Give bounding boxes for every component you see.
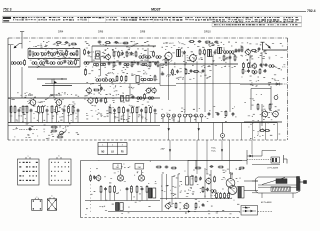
svg-text:2: 2 (112, 145, 113, 147)
wire dash y129 (21, 129, 38, 131)
resistor R12 (149, 61, 151, 67)
wire drop w6 (229, 140, 231, 174)
module label DR4 (58, 29, 64, 33)
capacitor C7 (108, 62, 111, 66)
connector box B0 (271, 157, 280, 163)
wire lower bus A (28, 66, 80, 68)
row below border (156, 165, 245, 172)
wire drops right (242, 123, 278, 140)
lower box bottom dashed (81, 217, 241, 219)
coil L5 (59, 53, 64, 56)
resistor R76 (214, 176, 216, 183)
wire dash bottom (258, 211, 273, 213)
capacitor C22 (202, 69, 205, 73)
transistor TS18 (205, 177, 211, 184)
transistor TS9 (29, 99, 36, 107)
wire rb2 (244, 121, 282, 123)
arrowheads below bus (168, 128, 200, 131)
svg-text:MD3T: MD3T (151, 8, 162, 12)
resistor R4 (75, 59, 77, 65)
svg-text:752.4: 752.4 (307, 9, 316, 13)
resistor R15 (165, 57, 167, 63)
coil L18 (223, 51, 228, 54)
coil L29 (84, 62, 89, 65)
coil diagram K2 (dot grid) (49, 156, 71, 186)
resistor R75 (195, 176, 197, 183)
arrow a2 (221, 149, 223, 152)
label 10f (84, 96, 87, 98)
page number 752 3 (top left) (3, 7, 12, 11)
transformer TR2 (177, 49, 181, 57)
coil L24 (141, 78, 146, 81)
label box DR1b (135, 164, 144, 170)
transistor TS22 (183, 203, 189, 210)
svg-text:DR4: DR4 (58, 29, 64, 33)
capacitor C34 (217, 112, 220, 116)
wire drop w5 (206, 140, 208, 174)
svg-text:1 m: 1 m (282, 67, 286, 69)
resistor R82 (195, 202, 197, 209)
coil L28 (211, 190, 216, 193)
wire rb (261, 104, 263, 126)
coil diagram K3 (corner pads) (32, 196, 42, 210)
resistor comb left (R31-R45) (10, 105, 79, 122)
coil L23 (109, 79, 114, 82)
wire trunk v4 (147, 48, 149, 62)
coil L26 (137, 97, 142, 100)
svg-text:2M: 2M (138, 167, 141, 169)
resistor R3 (76, 50, 78, 56)
wire bus y122 left (8, 122, 160, 124)
wire trunk v3 (100, 59, 102, 76)
svg-text:752}-: 752}- (211, 150, 216, 152)
coil L6 (70, 53, 75, 56)
resistor R60 (225, 110, 227, 116)
wire C bus (160, 63, 238, 65)
resistor R1 (29, 50, 31, 56)
resistor R2 (66, 50, 68, 56)
capacitor C18 (100, 87, 103, 91)
resistor R9 (153, 51, 155, 57)
coil L27 (148, 97, 153, 100)
capacitor C1 (47, 51, 50, 55)
resistor R16 (223, 55, 225, 61)
svg-text:DR6: DR6 (98, 29, 104, 33)
caption SAP (160, 148, 165, 151)
capacitor C41 (87, 51, 90, 55)
wire drop w2 (196, 140, 198, 174)
coil diagram K4 (crossed) (47, 196, 56, 211)
wire dash right159 (247, 159, 271, 161)
resistor R63 (259, 130, 265, 132)
capacitor C16 (260, 63, 263, 67)
coil L14 (93, 63, 98, 66)
coil L31 (11, 62, 16, 65)
svg-text:DR2: DR2 (28, 94, 33, 97)
capacitor C17 (265, 63, 268, 67)
title rule (3, 10, 306, 12)
svg-text:U77%-AB88: U77%-AB88 (267, 166, 279, 169)
wire B mid (84, 61, 158, 63)
wire trunk v2 (91, 46, 93, 62)
wire mid bus c (160, 85, 176, 87)
coil L4 (50, 53, 55, 56)
wire long mid bus (45, 83, 240, 85)
capacitor C5 (121, 52, 124, 56)
transistor TS4 (245, 49, 251, 56)
resistor R61 (257, 103, 259, 110)
parts list strip (3, 16, 302, 23)
capacitor C35 (232, 112, 235, 116)
resistor R21 (248, 62, 250, 68)
wire audio verts (162, 174, 178, 211)
label a2 (170, 72, 174, 74)
transistor TS17 (95, 175, 101, 182)
capacitor C23 (100, 99, 103, 103)
capacitor row (C25-C32) (162, 114, 204, 122)
resistor R29 (185, 68, 187, 74)
svg-text:DR10: DR10 (204, 29, 211, 33)
svg-text:40 17 14.0?: 40 17 14.0? (163, 43, 174, 45)
wire trunk v13 (261, 52, 263, 68)
wire top bus L1 section (28, 48, 80, 50)
resistor R18 (241, 46, 243, 52)
svg-text:1M: 1M (116, 167, 119, 169)
svg-text:DR8: DR8 (140, 29, 146, 33)
diode D5 (243, 206, 251, 208)
wire trunk v8 (196, 61, 198, 112)
coil L11 (68, 62, 73, 65)
transistor TS5 (251, 63, 256, 69)
wire drop w4 (251, 140, 253, 154)
resistor comb audio (R77-R80) (216, 192, 230, 199)
capacitor C8 (119, 62, 122, 66)
circle O2 (221, 123, 225, 141)
resistor R10 (113, 61, 115, 67)
coil L8 (39, 62, 44, 65)
transistor TS11 (87, 97, 93, 104)
antenna A1 (20, 32, 24, 44)
coil L9 (50, 62, 55, 65)
flag marker (54, 81, 57, 84)
resistor R47 (105, 97, 107, 103)
wire h160 (188, 160, 242, 162)
svg-text:750}-: 750}- (211, 148, 216, 150)
wire trunk v7 (184, 54, 186, 112)
capacitor C38 (199, 177, 202, 181)
label DR2 (28, 94, 33, 97)
transformer TR4 (218, 47, 222, 54)
svg-text:AT7N-AB88: AT7N-AB88 (261, 201, 272, 204)
resistor R26 (93, 89, 99, 91)
speaker/output transformer assembly (252, 177, 307, 199)
capacitor C10 (154, 62, 157, 66)
wire trunk v0 (10, 45, 12, 122)
coil L3 (41, 53, 46, 56)
capacitor C14 (229, 56, 232, 60)
resistor R25 (125, 75, 127, 81)
wire mid left b (42, 85, 72, 87)
capacitor C20 (176, 70, 179, 74)
capacitor C2 (56, 51, 59, 55)
cluster D2 row (242, 68, 266, 74)
diode D2 arrow (276, 83, 279, 86)
wire trunk v1 (21, 44, 23, 49)
parts row y42c (189, 40, 219, 43)
resistor R27 (154, 75, 156, 81)
arrow a3 (188, 210, 191, 212)
resistor R87 (24, 59, 26, 65)
label cluster C (163, 43, 174, 45)
transformer TR9 (output) (238, 187, 244, 199)
coil L32 (17, 62, 22, 65)
label box DR1a (113, 164, 122, 170)
caption 750 (211, 148, 216, 153)
coil L20 (269, 65, 274, 68)
resistor R19 (251, 50, 257, 52)
transistor TS20 (output) (228, 186, 237, 195)
wire bus y125 (8, 125, 160, 127)
transformer TR6 (149, 188, 156, 198)
diode D4 (243, 210, 257, 212)
resistor R81 (175, 202, 177, 209)
capacitor C21 (190, 69, 193, 73)
capacitor C13 (235, 49, 238, 53)
svg-text:78: 78 (122, 93, 124, 95)
coil L7 (32, 62, 37, 65)
rectifier box (241, 206, 258, 216)
label cluster B (118, 43, 128, 45)
caption speaker (261, 201, 272, 204)
transistor TS12 (261, 110, 268, 118)
coil L12 (139, 56, 144, 59)
svg-text:b: b (51, 196, 52, 198)
caption UPTN (267, 166, 279, 169)
resistor R30 (193, 71, 199, 73)
capacitor C12 (214, 51, 217, 55)
wire A verticals (28, 49, 80, 68)
resistor R5 (113, 51, 115, 57)
wire to speaker (244, 181, 258, 191)
transistor TS19 (output) (226, 172, 235, 187)
transformer TR7 (116, 203, 124, 211)
capacitor C4 (64, 60, 67, 64)
coil L10 (57, 62, 62, 65)
wire drops below bus (169, 123, 214, 141)
wire audio bus (160, 198, 232, 200)
capacitor C40 (206, 188, 209, 192)
svg-text:752 3: 752 3 (3, 7, 12, 11)
diode D3 (247, 155, 262, 158)
capacitor C42 (238, 49, 241, 53)
coil L25 (147, 78, 152, 81)
capacitor C15 (258, 47, 261, 51)
transformer TR8 (186, 177, 194, 186)
resistor R6 (118, 51, 120, 57)
wire v262 (262, 151, 276, 157)
main box left border (7, 38, 9, 140)
wire trunk v14 (53, 79, 55, 99)
resistor comb mid (R48-R58) (109, 106, 156, 122)
connector block N3/L8/F8 (98, 143, 127, 155)
wire right dashes (282, 83, 287, 85)
capacitor C19 (161, 73, 165, 76)
wire trunk v11 (229, 54, 231, 113)
svg-text:-5AP: -5AP (160, 148, 165, 151)
circle O1 (274, 96, 278, 100)
coil L30 (156, 56, 161, 59)
transformer TR5 (136, 76, 139, 83)
svg-text:1K7: 1K7 (222, 170, 225, 172)
wire h1645 (252, 164, 280, 166)
resistor R59 (144, 93, 146, 99)
wire rb3 (259, 123, 261, 131)
transformer TR3 (208, 49, 212, 57)
resistor R83 (195, 167, 201, 169)
svg-text:1: 1 (102, 145, 103, 147)
resistor R7 (126, 51, 128, 57)
main box bottom boundary (dashed) (8, 139, 288, 141)
resistor R14 (204, 49, 206, 55)
resistor R84 (202, 186, 204, 193)
capacitor C9 (137, 62, 140, 66)
resistor R86 (157, 61, 159, 67)
wire right bus (240, 83, 282, 85)
wire drop w1 (169, 140, 171, 160)
capacitor C11 (183, 51, 186, 55)
transistor TS15 (117, 170, 123, 181)
component value micro-labels (9, 41, 286, 215)
parts row y42b (98, 41, 129, 44)
wire trunk v9 (204, 54, 206, 112)
transistor TS21 (165, 203, 171, 210)
main box right border (287, 38, 289, 140)
antenna arrow (8, 43, 22, 48)
wire drop w3 (221, 140, 223, 160)
node dot a (61, 78, 62, 79)
jack symbol (284, 155, 288, 164)
coil L21 (96, 79, 101, 82)
transistor TS10 (55, 99, 62, 107)
resistor comb lower (R66-R74) (100, 185, 148, 200)
resistor R17 (234, 55, 236, 61)
resistor R11 (131, 61, 133, 67)
lower box top border (81, 161, 248, 218)
transformer TR1 (96, 51, 101, 59)
resistor R64 (264, 130, 270, 132)
module label DR6 (98, 29, 104, 33)
model title MD3T (151, 8, 162, 12)
svg-text:3: 3 (122, 145, 123, 147)
diode D1 arrow (266, 44, 271, 49)
capacitor C36 (29, 127, 32, 131)
main box top boundary (dash-dot) (8, 37, 288, 39)
wire bus y122 right (160, 122, 278, 124)
coil L2 (33, 51, 39, 57)
transistor TS8 (151, 87, 156, 93)
resistor R46 (96, 97, 98, 103)
label 308 (108, 73, 114, 75)
wire lower bus2 (108, 211, 240, 213)
capacitor C3 (46, 60, 49, 64)
resistor R23 (116, 75, 118, 81)
wire B top (92, 45, 156, 47)
arrow a1 (169, 149, 171, 152)
wire trunk v10 (212, 54, 214, 118)
wire mid left a (37, 78, 67, 80)
capacitor C37 (93, 176, 96, 180)
lower box left dotted border (90, 168, 92, 214)
resistor R8 (135, 51, 137, 57)
transistor TS7 (145, 87, 150, 93)
wire audio verts2 (188, 160, 232, 198)
parts row y42a (56, 41, 77, 45)
label DR7 BC347 (50, 94, 62, 97)
wire D right (263, 49, 288, 51)
resistor R24 (121, 75, 123, 81)
wire mid bus (28, 58, 80, 60)
parts list strip right extension (212, 23, 302, 27)
wire bus y98 (8, 97, 160, 99)
module label DR10 (204, 29, 211, 33)
wire trunk v6 (168, 60, 170, 100)
node T2 (261, 42, 265, 50)
component pair 78 (121, 93, 130, 101)
transistor TS3 (189, 54, 197, 63)
wire trunk v1b (21, 67, 23, 98)
resistor R22 (85, 68, 87, 75)
transistor TS1 (105, 54, 111, 61)
coil L19 (229, 51, 234, 54)
coil L15 (100, 63, 105, 66)
wire mid drops (52, 79, 130, 96)
wire lower bus1 (85, 200, 160, 202)
transistor TS2 (164, 51, 172, 60)
transistor TS16 (138, 170, 144, 181)
coil L13 (145, 56, 150, 59)
switch SK1 cluster (51, 126, 66, 138)
coil L22 (102, 79, 107, 82)
transistor TS13 (272, 110, 279, 118)
resistor R62 (269, 103, 271, 110)
wire trunk v5 (159, 64, 161, 86)
resistor R13 (199, 49, 201, 55)
resistor R65 (90, 175, 92, 182)
capacitor C24 (132, 95, 135, 99)
resistor R20 (243, 62, 245, 68)
page number 752.4 (top right) (307, 9, 316, 13)
coil L17 (142, 63, 147, 66)
module label DR8 (140, 29, 146, 33)
coil diagram K1 (dot grid) (18, 156, 40, 186)
resistor R28 (172, 69, 174, 75)
wire v247 (246, 150, 248, 165)
resistor R85 (84, 49, 86, 55)
wire trunk v12 (249, 54, 251, 68)
transistor TS6 (86, 87, 92, 94)
label 1m (282, 67, 286, 69)
wire rb0 (251, 86, 271, 110)
capacitor C33 (208, 112, 211, 116)
capacitor C6 (130, 52, 133, 56)
capacitor C39 (202, 203, 205, 207)
coil L16 (124, 63, 129, 66)
